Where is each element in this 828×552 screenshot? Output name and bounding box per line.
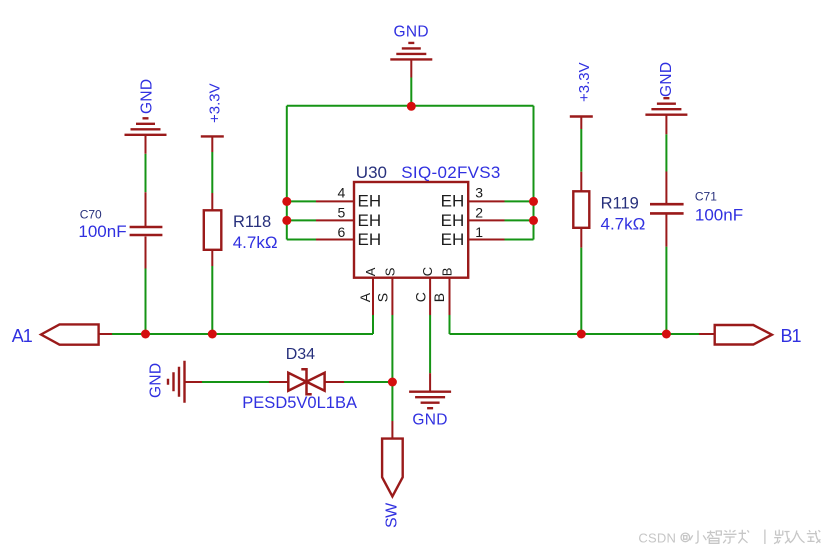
svg-text:EH: EH — [358, 211, 382, 230]
svg-text:4.7kΩ: 4.7kΩ — [601, 215, 646, 234]
svg-text:4.7kΩ: 4.7kΩ — [233, 233, 278, 252]
svg-text:GND: GND — [412, 412, 447, 429]
svg-text:EH: EH — [358, 230, 382, 249]
svg-text:C: C — [413, 292, 429, 302]
svg-text:+3.3V: +3.3V — [207, 83, 224, 123]
svg-text:EH: EH — [441, 211, 465, 230]
svg-text:EH: EH — [358, 192, 382, 211]
svg-text:EH: EH — [441, 230, 465, 249]
svg-text:D34: D34 — [286, 346, 315, 363]
svg-text:100nF: 100nF — [78, 222, 126, 241]
svg-text:S: S — [374, 293, 390, 302]
svg-text:SIQ-02FVS3: SIQ-02FVS3 — [401, 163, 500, 182]
svg-text:6: 6 — [338, 224, 346, 240]
svg-text:2: 2 — [475, 204, 483, 220]
svg-text:GND: GND — [658, 62, 675, 97]
svg-text:5: 5 — [338, 204, 346, 220]
svg-text:GND: GND — [148, 363, 165, 398]
svg-text:3: 3 — [475, 185, 483, 201]
svg-text:+3.3V: +3.3V — [576, 62, 593, 102]
svg-text:U30: U30 — [356, 163, 387, 182]
svg-text:C: C — [420, 267, 435, 276]
svg-text:B: B — [431, 293, 447, 302]
svg-text:GND: GND — [139, 79, 156, 114]
svg-text:PESD5V0L1BA: PESD5V0L1BA — [242, 394, 357, 412]
svg-text:SW: SW — [384, 502, 401, 528]
svg-text:GND: GND — [394, 24, 429, 41]
svg-text:B: B — [439, 268, 454, 277]
svg-text:S: S — [382, 267, 397, 276]
svg-text:B1: B1 — [781, 326, 802, 346]
svg-text:C70: C70 — [80, 208, 102, 222]
svg-text:CSDN: CSDN — [638, 531, 676, 546]
svg-text:C71: C71 — [695, 190, 717, 204]
svg-text:A: A — [363, 267, 378, 276]
svg-text:4: 4 — [338, 185, 346, 201]
svg-text:A: A — [357, 292, 373, 302]
svg-text:R118: R118 — [233, 213, 271, 231]
svg-text:EH: EH — [441, 192, 465, 211]
svg-text:1: 1 — [475, 224, 483, 240]
svg-text:100nF: 100nF — [695, 206, 743, 225]
svg-text:R119: R119 — [601, 194, 639, 212]
svg-text:A1: A1 — [12, 326, 33, 346]
